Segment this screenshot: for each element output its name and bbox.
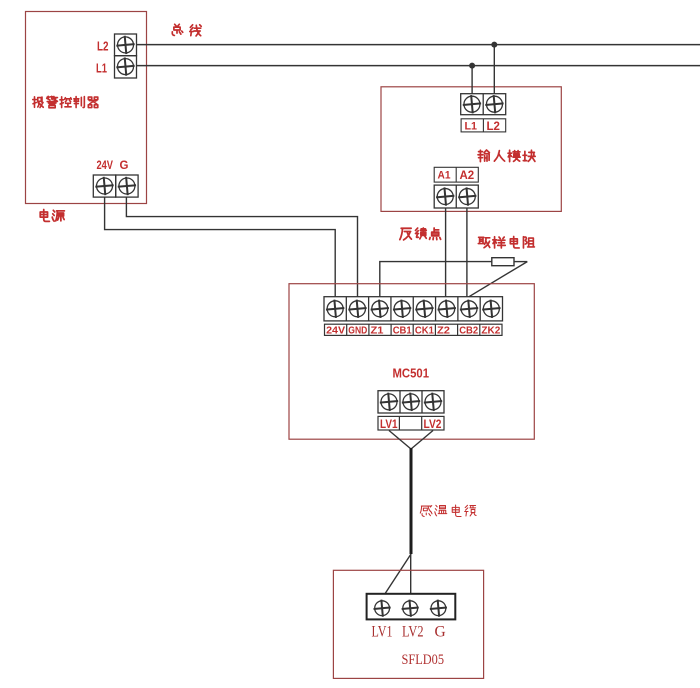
svg-text:L1: L1 [96, 61, 107, 76]
terminal strip L1 L2 of module [461, 94, 506, 115]
wire LV2 to cable junction [411, 431, 433, 450]
label 取样电阻 [478, 237, 534, 248]
wire diagonal tip to CB2 [469, 262, 527, 297]
label 电源 [40, 210, 64, 222]
wire module L1 to bus [471, 66, 473, 94]
terminal strip MC501 bottom (3) [378, 391, 444, 413]
wire bus line L1 [137, 65, 700, 67]
svg-text:LV2: LV2 [402, 624, 424, 641]
svg-text:CK1: CK1 [415, 325, 434, 337]
label 反馈点 [400, 228, 441, 240]
pin label row 24V GND Z1 CB1 CK1 Z2 CB2 ZK2 [325, 324, 503, 336]
alarm controller box 报警控制器 [26, 12, 147, 204]
svg-text:24V: 24V [97, 160, 114, 172]
terminal strip MC501 top (8) [324, 297, 503, 321]
svg-text:LV2: LV2 [424, 419, 442, 431]
wire LV1 to cable junction [389, 431, 411, 450]
svg-text:L2: L2 [487, 121, 500, 133]
label 输入模块 [478, 150, 535, 162]
pin labels LV1 LV2 G [372, 624, 446, 641]
svg-text:24V: 24V [326, 325, 345, 337]
wire cable to LV1 of SFLD05 [385, 554, 411, 594]
wire resistor to tip [514, 261, 527, 263]
wire Z1 to sampling resistor [380, 262, 492, 297]
pin label boxes A1 A2 [434, 167, 478, 182]
resistor 取样电阻 body [492, 258, 514, 266]
svg-text:CB2: CB2 [459, 325, 478, 337]
svg-text:G: G [120, 160, 129, 172]
wire bus line L2 [137, 44, 700, 46]
wire A2 to CB2 [466, 208, 468, 297]
wire cable to LV2 of SFLD05 [410, 554, 412, 594]
wire module L2 to bus [493, 45, 495, 94]
svg-text:SFLD05: SFLD05 [402, 652, 445, 668]
svg-text:A2: A2 [460, 170, 475, 182]
bus label 总线 [172, 24, 201, 36]
terminal strip SFLD05 (3 screws, no dividers) [367, 594, 456, 620]
terminal L2 of controller [115, 34, 137, 56]
terminal G of controller [116, 175, 138, 197]
terminal strip A1 A2 of module [434, 185, 478, 208]
pin label boxes L1 L2 [461, 119, 506, 133]
sensing cable (thick) [410, 448, 413, 554]
label 感温电缆 [420, 505, 476, 516]
wire 24V to MC501 [105, 197, 336, 297]
svg-text:A1: A1 [438, 170, 451, 182]
wire G to MC501 GND [126, 197, 357, 297]
svg-text:G: G [435, 624, 446, 641]
svg-text:ZK2: ZK2 [481, 325, 500, 337]
SFLD05 box [333, 570, 483, 678]
svg-text:Z2: Z2 [437, 325, 450, 337]
svg-text:LV1: LV1 [372, 624, 393, 641]
terminal L1 of controller [115, 56, 137, 78]
svg-text:MC501: MC501 [393, 366, 430, 381]
svg-text:Z1: Z1 [371, 325, 384, 337]
MC501 box [289, 284, 534, 440]
svg-text:CB1: CB1 [393, 325, 412, 337]
junction on bus L2 [491, 42, 497, 48]
svg-text:LV1: LV1 [380, 419, 398, 431]
input module box 输入模块 [381, 87, 561, 212]
label 报警控制器 [33, 96, 98, 108]
pin label row LV1 LV2 [378, 416, 444, 430]
svg-text:L1: L1 [465, 121, 478, 133]
junction on bus L1 [469, 63, 475, 69]
wire A1 to Z2 feedback [445, 208, 447, 297]
terminal 24V of controller [93, 175, 115, 197]
svg-text:L2: L2 [97, 39, 109, 54]
svg-text:GND: GND [348, 325, 367, 337]
